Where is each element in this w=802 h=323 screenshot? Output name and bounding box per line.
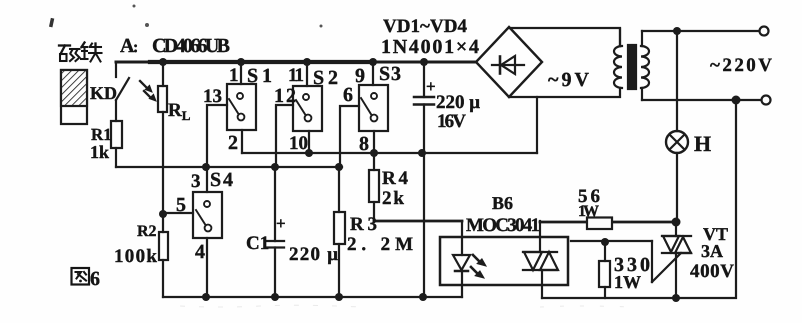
wire 220V bottom line [642, 99, 761, 101]
capacitor 220u16V [414, 62, 434, 297]
svg-text:1: 1 [229, 65, 239, 86]
svg-text::: : [133, 39, 138, 56]
svg-text:9: 9 [355, 65, 365, 87]
svg-text:8: 8 [359, 133, 369, 155]
wire rail B (logic node) [116, 166, 342, 168]
svg-text:RL: RL [168, 100, 191, 123]
junction R3 ground rail [335, 293, 343, 301]
junction S2 pin10 rail A [305, 149, 313, 157]
junction C1 ground rail [271, 293, 279, 301]
terminal top [760, 27, 769, 36]
reed switch KD [116, 62, 129, 121]
resistor R3 [334, 167, 345, 297]
svg-text:CD4066UB: CD4066UB [152, 35, 230, 57]
svg-text:1W: 1W [578, 203, 599, 220]
svg-text:S1: S1 [247, 65, 272, 87]
arrows onto RL [140, 81, 156, 101]
svg-text:1k: 1k [90, 142, 109, 162]
wire bridge top to transformer [509, 28, 620, 46]
wire R2 bottom to ground rail [162, 260, 164, 297]
svg-text:VD1~VD4: VD1~VD4 [383, 16, 468, 37]
junction transformer 220V top [673, 27, 681, 35]
wire S1 pin2 [241, 130, 243, 153]
analog switch S1 [227, 84, 256, 130]
analog switch S4 [193, 192, 222, 238]
svg-text:3: 3 [191, 171, 201, 192]
optocoupler B6 MOC3041 box [440, 237, 568, 285]
svg-text:S4: S4 [210, 169, 233, 191]
resistor R2 [159, 232, 168, 260]
svg-text:4: 4 [195, 241, 205, 263]
caption fig 6 [72, 268, 90, 285]
label magnet [59, 43, 102, 62]
junction lamp VT node [672, 218, 681, 227]
junction S4 pin3 rail B [202, 163, 210, 171]
wire S2 pin11 [306, 62, 308, 86]
svg-text:12: 12 [274, 85, 296, 107]
terminal bottom [762, 96, 771, 105]
wire 220V top line [642, 30, 759, 32]
junction S4 pin5 node [159, 210, 167, 218]
svg-text:1W: 1W [614, 272, 641, 292]
svg-text:R2: R2 [137, 223, 157, 240]
junction S2 pin11 rail [303, 58, 311, 66]
transformer T [614, 29, 649, 100]
svg-text:S3: S3 [379, 63, 401, 85]
wire S1 pin13 [207, 105, 227, 167]
wire bottom 220V return [542, 100, 736, 298]
analog switch S2 [293, 86, 322, 131]
lamp H [666, 31, 688, 222]
wire bridge bottom to transformer [509, 88, 620, 97]
svg-text:16V: 16V [437, 111, 466, 132]
svg-text:~9V: ~9V [548, 69, 590, 91]
junction cap rail A [418, 149, 426, 157]
svg-text:2: 2 [228, 132, 238, 154]
svg-text:~220V: ~220V [710, 55, 772, 76]
svg-text:2k: 2k [382, 188, 404, 209]
wire S3 pin9 [372, 62, 374, 85]
junction transformer 220V bottom [732, 96, 741, 105]
wire R4 to LED anode [374, 220, 462, 223]
capacitor C1 [266, 167, 284, 297]
wire top supply rail [116, 61, 476, 64]
wire S2 pin12 [276, 105, 293, 167]
svg-text:KD: KD [90, 83, 117, 103]
svg-text:1N4001×4: 1N4001×4 [381, 36, 479, 58]
resistor 56 1W [587, 218, 612, 230]
wire S4 pin5 [163, 212, 193, 214]
svg-text:11: 11 [288, 65, 304, 86]
junction S4 ground rail [202, 293, 210, 301]
svg-text:+: + [426, 77, 436, 96]
junction S3 pin8 R4 rail A [370, 149, 378, 157]
svg-text:6: 6 [90, 268, 100, 290]
junction S1 pin1 rail [237, 58, 245, 66]
wire S4 pin4 [206, 238, 208, 297]
svg-text:100k: 100k [114, 246, 157, 267]
junction 330 gate node [601, 238, 609, 246]
wire opto-triac to 56 resistor to lamp node [540, 221, 676, 224]
opto-triac inside optocoupler [523, 221, 558, 298]
svg-text:C1: C1 [246, 233, 269, 254]
svg-text:3A: 3A [701, 241, 723, 261]
resistor 330 1W [599, 241, 610, 298]
wire R1 bottom to rail B [115, 148, 117, 167]
svg-text:400V: 400V [690, 261, 734, 282]
wire ground rail [163, 296, 462, 298]
faint scan smudges (decorative) [180, 305, 630, 307]
svg-text:5: 5 [176, 194, 186, 216]
wire S4 pin3 [206, 167, 208, 192]
junction VT bottom return [672, 294, 680, 302]
LED inside optocoupler [453, 221, 470, 297]
svg-text:13: 13 [203, 86, 222, 107]
wire S2 pin10 [308, 131, 310, 153]
svg-text:S2: S2 [313, 67, 338, 89]
resistor R1 [111, 121, 122, 148]
triac VT [571, 222, 691, 298]
svg-text:B6: B6 [492, 193, 513, 213]
junction R3 rail B [335, 163, 343, 171]
analog switch S3 [359, 85, 388, 131]
resistor R4 [369, 153, 379, 221]
photoresistor RL [158, 62, 167, 232]
magnet symbol [61, 70, 87, 124]
svg-text:+: + [276, 214, 286, 233]
svg-text:2. 2M: 2. 2M [347, 234, 413, 255]
LED emission arrows [471, 255, 486, 278]
svg-text:6: 6 [343, 84, 353, 106]
svg-text:R4: R4 [382, 168, 409, 189]
wire S3 pin6 [340, 106, 359, 167]
bridge rectifier VD1-VD4 [476, 27, 542, 97]
scan specks [49, 5, 323, 28]
svg-text:10: 10 [289, 133, 308, 154]
wire DC minus drop [536, 97, 538, 153]
wire S3 pin8 [373, 131, 375, 153]
junction C1 rail B [271, 163, 279, 171]
svg-text:220 μ: 220 μ [436, 92, 480, 113]
junction cap top rail [420, 58, 428, 66]
junction S3 pin9 rail [369, 58, 377, 66]
svg-text:H: H [694, 131, 711, 156]
svg-text:R3: R3 [350, 214, 377, 235]
junction cap ground rail [419, 293, 427, 301]
wire S1 pin1 [240, 62, 242, 84]
wire rail A (S outputs) [242, 152, 537, 154]
svg-text:220 μ: 220 μ [289, 244, 338, 265]
svg-text:MOC3041: MOC3041 [466, 215, 540, 236]
junction RL top rail [159, 58, 167, 66]
